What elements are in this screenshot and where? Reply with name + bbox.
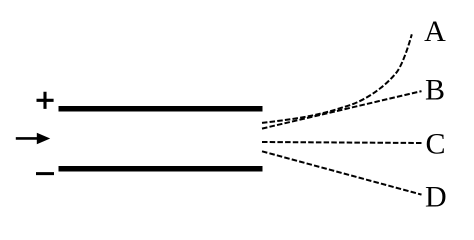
trajectory D (dashed line): [262, 151, 422, 194]
trajectory C (dashed line): [262, 142, 422, 143]
svg-text:B: B: [425, 73, 445, 106]
trajectory B (dashed line): [262, 91, 422, 129]
bottom plate (negative): [59, 166, 263, 172]
svg-text:D: D: [425, 181, 447, 214]
svg-text:A: A: [424, 15, 446, 48]
top plate (positive): [59, 106, 263, 112]
svg-text:C: C: [425, 127, 445, 160]
trajectory A (dashed curve): [262, 34, 412, 123]
minus sign: [36, 172, 54, 175]
velocity arrow: [16, 133, 50, 145]
plus sign: [37, 92, 54, 109]
